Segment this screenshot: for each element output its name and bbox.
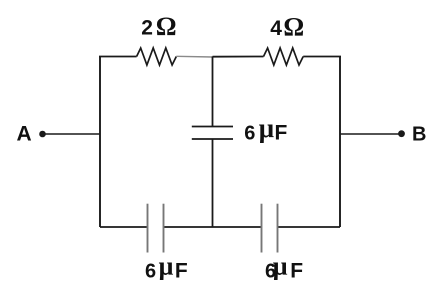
- node B terminal dot: [398, 130, 405, 137]
- wire: middle branch lower: [212, 139, 214, 228]
- svg-text:F: F: [275, 122, 288, 145]
- wire: bottom-left segment: [100, 226, 148, 228]
- svg-text:B: B: [412, 123, 426, 145]
- svg-text:F: F: [175, 259, 188, 282]
- capacitor C2 6uF bottom-left plates: [147, 204, 149, 253]
- wire: bottom-right segment: [278, 226, 341, 228]
- wire: left vertical branch: [99, 57, 101, 228]
- wire: terminal A lead: [45, 133, 100, 135]
- wire: segment between R1 and middle node (light): [176, 55, 212, 58]
- wire: middle branch upper: [212, 57, 214, 127]
- svg-text:2: 2: [141, 16, 153, 39]
- resistor R2 4 ohm zigzag: [264, 48, 304, 65]
- wire: segment middle node to R2: [213, 56, 264, 58]
- wire: terminal B lead: [340, 133, 399, 135]
- svg-text:μ: μ: [259, 113, 274, 143]
- wire: bottom-middle segment: [164, 226, 262, 228]
- svg-text:A: A: [17, 122, 32, 145]
- svg-text:6: 6: [145, 260, 156, 282]
- node A terminal dot: [39, 131, 46, 138]
- svg-text:F: F: [290, 259, 303, 282]
- resistor R1 2 ohm zigzag: [137, 48, 177, 65]
- svg-text:6: 6: [244, 123, 255, 145]
- svg-text:μ: μ: [273, 252, 288, 281]
- wire: right vertical branch: [339, 57, 341, 228]
- svg-text:μ: μ: [159, 252, 174, 281]
- wire: top-left segment: [99, 56, 137, 58]
- capacitor C3 6uF bottom-right plates: [261, 204, 263, 253]
- svg-text:4: 4: [270, 17, 282, 40]
- svg-text:Ω: Ω: [156, 12, 177, 41]
- capacitor C1 6uF middle plates: [192, 126, 233, 128]
- svg-text:Ω: Ω: [283, 12, 304, 41]
- wire: top-right segment: [303, 56, 341, 58]
